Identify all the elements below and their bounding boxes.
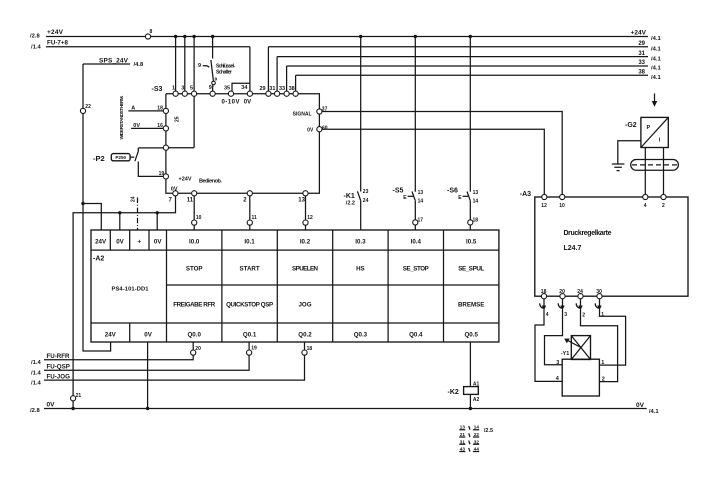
svg-text:0-10V: 0-10V xyxy=(222,100,240,106)
svg-text:P: P xyxy=(647,125,651,131)
wire riser 38 xyxy=(295,75,297,91)
svg-text:23: 23 xyxy=(363,189,369,195)
svg-text:24V: 24V xyxy=(105,332,117,339)
terminal 20 A3 bottom xyxy=(560,294,565,299)
svg-text:20: 20 xyxy=(559,289,565,295)
svg-text:SIGNAL: SIGNAL xyxy=(293,111,312,117)
terminal 4 A3 top xyxy=(643,194,648,199)
PLC table A2 PS4-101-DD1 xyxy=(91,230,499,342)
connector hook pin 4 xyxy=(540,299,549,318)
svg-text:9: 9 xyxy=(215,77,218,83)
svg-text:31: 31 xyxy=(638,51,645,57)
block A3 Druckregelkarte xyxy=(520,191,688,296)
wire Q0.0 to FU-RFR xyxy=(44,342,193,360)
svg-text:0V: 0V xyxy=(47,401,56,408)
svg-text:11: 11 xyxy=(187,198,194,204)
svg-text:9: 9 xyxy=(198,63,201,69)
svg-text:Bedienob.: Bedienob. xyxy=(199,178,222,184)
svg-text:STOP: STOP xyxy=(186,266,203,273)
svg-text:14: 14 xyxy=(474,425,480,430)
svg-text:SE_SPUL: SE_SPUL xyxy=(458,266,484,273)
svg-text:31: 31 xyxy=(460,439,466,444)
terminal 21 xyxy=(71,396,76,401)
svg-text:Q0.5: Q0.5 xyxy=(464,332,478,339)
svg-text:18: 18 xyxy=(541,289,547,295)
svg-text:3: 3 xyxy=(181,86,184,92)
connector hook pin 3 xyxy=(558,299,567,318)
svg-text:29: 29 xyxy=(638,41,645,47)
wire G2 to A3 pin4 xyxy=(644,148,646,195)
potentiometer P2 pressure switch xyxy=(93,148,163,177)
svg-text:18: 18 xyxy=(307,346,313,352)
svg-text:/4.8: /4.8 xyxy=(134,62,144,68)
svg-text:0V: 0V xyxy=(116,239,124,246)
svg-text:-G2: -G2 xyxy=(625,122,637,129)
wire input 0V xyxy=(131,127,163,129)
wire Q0.2 to FU-JOG xyxy=(44,342,305,380)
svg-text:+24V: +24V xyxy=(631,30,647,37)
svg-text:FU-JOG: FU-JOG xyxy=(47,373,71,380)
svg-text:8: 8 xyxy=(150,29,153,35)
svg-text:25: 25 xyxy=(174,116,180,122)
wire riser S3 pin5 xyxy=(193,37,195,92)
svg-text:9: 9 xyxy=(209,85,212,91)
svg-text:-S3: -S3 xyxy=(152,86,163,93)
svg-text:14: 14 xyxy=(418,199,424,205)
svg-text:/4.1: /4.1 xyxy=(651,36,661,42)
svg-text:24V: 24V xyxy=(95,239,107,246)
connector hook pin 1 xyxy=(595,299,604,318)
svg-text:Q0.3: Q0.3 xyxy=(354,332,368,339)
contact mirror K2 cross reference xyxy=(459,425,493,452)
svg-text:A1: A1 xyxy=(473,381,480,387)
wire SPS vertical feed xyxy=(83,64,111,351)
svg-text:31: 31 xyxy=(269,86,275,92)
wire input A xyxy=(128,110,163,112)
svg-text:2: 2 xyxy=(582,313,585,319)
svg-text:Q0.4: Q0.4 xyxy=(409,332,423,339)
table header texts xyxy=(95,239,477,246)
terminal 30 A3 bottom xyxy=(597,294,602,299)
svg-text:21: 21 xyxy=(460,432,466,437)
bottom edge terminals of analog block xyxy=(173,191,178,196)
svg-text:13: 13 xyxy=(473,190,479,196)
svg-text:-S5: -S5 xyxy=(393,187,404,194)
svg-text:30: 30 xyxy=(596,289,602,295)
svg-text:Druckregelkarte: Druckregelkarte xyxy=(564,230,612,237)
svg-text:13: 13 xyxy=(460,425,466,430)
wire 0V bottom cell to 0V bus xyxy=(147,342,149,409)
svg-text:FREIGABE RFR: FREIGABE RFR xyxy=(173,302,216,309)
block analog section outline xyxy=(166,94,320,194)
terminal 8 on +24V bus xyxy=(145,34,150,39)
wire hook4 to valve pin4 xyxy=(535,310,562,382)
wire SIGNAL run to A3 pin 10 xyxy=(322,112,562,195)
terminal 19 analog block left edge xyxy=(163,174,168,179)
terminal 12 A3 top xyxy=(542,194,547,199)
svg-text:Q0.1: Q0.1 xyxy=(243,332,257,339)
terminal 10 A3 top xyxy=(560,194,565,199)
svg-text:-A3: -A3 xyxy=(520,191,531,198)
svg-text:14: 14 xyxy=(473,199,479,205)
svg-text:/1.4: /1.4 xyxy=(31,360,41,366)
wire riser S3 pin3 xyxy=(184,37,186,92)
svg-text:L24.7: L24.7 xyxy=(564,245,582,252)
wire jumper bracket 35-34 xyxy=(232,83,250,91)
svg-text:17: 17 xyxy=(418,217,424,223)
svg-text:HS: HS xyxy=(356,266,365,273)
terminal 2 A3 top xyxy=(661,194,666,199)
wire net 29 to /4.1 xyxy=(268,46,648,48)
svg-text:PS4-101-DD1: PS4-101-DD1 xyxy=(112,287,150,293)
svg-text:35: 35 xyxy=(224,85,230,91)
svg-text:3: 3 xyxy=(564,312,567,318)
svg-text:/1.4: /1.4 xyxy=(31,380,41,386)
relay coil K2 xyxy=(448,342,480,410)
svg-text:22: 22 xyxy=(474,432,480,437)
terminal 22 xyxy=(80,108,85,113)
wire 0V run to A3 pin 12 xyxy=(322,129,544,194)
svg-text:/4.1: /4.1 xyxy=(651,47,661,53)
right edge terminals SIGNAL and 0V xyxy=(317,109,322,114)
cable marker stadium xyxy=(631,160,679,171)
wire branch to 24V top cell xyxy=(83,204,101,231)
svg-text:/4.1: /4.1 xyxy=(651,75,661,81)
node junction circle left edge xyxy=(163,145,168,150)
wire hook1 to valve pin1 xyxy=(599,310,625,366)
svg-text:32: 32 xyxy=(474,439,480,444)
svg-text:-K1: -K1 xyxy=(344,193,355,200)
svg-text:21: 21 xyxy=(76,393,82,399)
svg-text:I0.4: I0.4 xyxy=(411,239,422,246)
ground symbol xyxy=(618,141,641,164)
svg-text:SE_STOP: SE_STOP xyxy=(403,266,429,273)
svg-text:19: 19 xyxy=(251,346,257,352)
svg-text:I0.5: I0.5 xyxy=(466,239,477,246)
svg-text:1: 1 xyxy=(172,86,175,92)
svg-text:1: 1 xyxy=(601,360,604,366)
contact S5 pushbutton xyxy=(393,35,424,230)
svg-text:BREMSE: BREMSE xyxy=(458,302,484,309)
wire shield dash-dot to plus terminal xyxy=(137,198,139,231)
svg-text:A: A xyxy=(131,105,135,111)
svg-text:2: 2 xyxy=(662,203,665,209)
wire hook2 to valve pin2 xyxy=(581,310,618,382)
svg-text:/2.8: /2.8 xyxy=(30,34,40,40)
svg-text:+24V: +24V xyxy=(47,29,64,36)
svg-text:44: 44 xyxy=(474,447,480,452)
svg-text:/1.4: /1.4 xyxy=(31,371,41,377)
svg-text:-S6: -S6 xyxy=(447,187,458,194)
svg-text:I0.3: I0.3 xyxy=(355,239,366,246)
svg-text:I0.2: I0.2 xyxy=(300,239,311,246)
svg-text:START: START xyxy=(240,266,260,273)
wire net 33 to /4.1 xyxy=(287,65,648,67)
svg-text:-Y1: -Y1 xyxy=(561,351,570,357)
svg-text:Schalter: Schalter xyxy=(216,69,232,75)
svg-text:-A2: -A2 xyxy=(93,256,104,263)
valve Y1 proportional solenoid xyxy=(561,336,591,360)
svg-text:24: 24 xyxy=(577,289,583,295)
wire hook3 to valve pin3 xyxy=(545,310,563,365)
svg-text:WIDERSTANDSTHERM.: WIDERSTANDSTHERM. xyxy=(119,96,125,140)
wire 0V drops to table xyxy=(120,213,157,230)
svg-text:FU-RFR: FU-RFR xyxy=(47,353,71,360)
svg-text:0V: 0V xyxy=(144,332,152,339)
svg-text:/4.1: /4.1 xyxy=(651,66,661,72)
svg-text:22: 22 xyxy=(85,104,91,110)
svg-text:P250: P250 xyxy=(115,155,126,160)
svg-text:12: 12 xyxy=(307,215,313,221)
svg-text:13: 13 xyxy=(298,197,305,203)
svg-text:43: 43 xyxy=(460,447,466,452)
svg-text:10: 10 xyxy=(196,215,202,221)
wire I0.1 from terminal 2 xyxy=(249,196,251,230)
arrow pressure input xyxy=(654,94,656,103)
connector hook pin 2 xyxy=(576,299,585,319)
svg-text:Q0.2: Q0.2 xyxy=(298,332,312,339)
svg-text:QUICKSTOP QSP: QUICKSTOP QSP xyxy=(226,302,273,309)
svg-text:-K2: -K2 xyxy=(448,389,459,396)
terminal 18 analog block left edge xyxy=(163,108,168,113)
table bottom row texts xyxy=(105,332,479,339)
svg-text:29: 29 xyxy=(260,86,266,92)
svg-text:0V: 0V xyxy=(636,402,645,409)
terminal 24 A3 bottom xyxy=(578,294,583,299)
transducer G2 pressure sensor xyxy=(625,117,668,147)
svg-text:/2.2: /2.2 xyxy=(346,201,355,207)
wire 0V distribution from terminal 7 xyxy=(73,196,175,409)
wire G2 to A3 pin2 xyxy=(663,148,665,195)
table row3 texts xyxy=(173,302,484,309)
wire 0V bus bottom xyxy=(44,408,647,410)
svg-text:SPUELEN: SPUELEN xyxy=(292,266,319,273)
wire I0.2 from terminal 13 xyxy=(305,196,307,230)
svg-text:0V: 0V xyxy=(307,128,314,134)
svg-text:FU-QSP: FU-QSP xyxy=(47,364,70,371)
svg-text:-P2: -P2 xyxy=(93,154,105,163)
terminal row top of analog block xyxy=(173,91,178,96)
svg-text:33: 33 xyxy=(638,60,645,66)
svg-text:+24V: +24V xyxy=(179,176,192,182)
svg-text:24: 24 xyxy=(131,196,137,202)
wire net 31 to /4.1 xyxy=(277,56,648,58)
svg-text:11: 11 xyxy=(252,215,258,221)
wire riser S3 pin1 xyxy=(175,37,177,92)
wire riser 29 xyxy=(267,47,269,91)
svg-text:+: + xyxy=(137,239,141,246)
wire FU-7+8 xyxy=(46,46,250,48)
svg-text:18: 18 xyxy=(473,217,479,223)
svg-text:/2.8: /2.8 xyxy=(30,408,40,414)
svg-text:24: 24 xyxy=(363,198,369,204)
wire terminal5 branch to junction xyxy=(169,96,195,147)
svg-text:20: 20 xyxy=(195,346,201,352)
svg-text:FU-7+8: FU-7+8 xyxy=(47,40,69,47)
svg-text:3: 3 xyxy=(556,360,559,366)
wire I0.0 from terminal 11 xyxy=(193,196,195,230)
svg-text:/2.5: /2.5 xyxy=(484,428,493,434)
svg-text:A2: A2 xyxy=(473,397,480,403)
svg-text:Q0.0: Q0.0 xyxy=(187,332,201,339)
terminal 16 analog block left edge xyxy=(163,126,168,131)
wire riser 33 xyxy=(286,66,288,91)
svg-text:1: 1 xyxy=(601,312,604,318)
wire riser 31 xyxy=(276,57,278,92)
svg-text:0V: 0V xyxy=(244,100,251,106)
svg-text:10: 10 xyxy=(559,203,565,209)
svg-text:5: 5 xyxy=(190,86,193,92)
svg-text:/4.1: /4.1 xyxy=(651,56,661,62)
svg-text:I0.1: I0.1 xyxy=(244,239,255,246)
svg-text:38: 38 xyxy=(638,70,645,76)
svg-text:/4.1: /4.1 xyxy=(649,409,659,415)
svg-text:2: 2 xyxy=(602,376,605,382)
wire FU-7+8 drop to terminal 34 xyxy=(249,47,251,91)
contact S6 pushbutton xyxy=(447,35,478,230)
svg-text:0V: 0V xyxy=(133,123,140,129)
svg-text:/1.4: /1.4 xyxy=(31,45,41,51)
svg-text:33: 33 xyxy=(279,86,285,92)
valve body block xyxy=(556,359,605,396)
svg-text:12: 12 xyxy=(541,203,547,209)
svg-text:38: 38 xyxy=(289,86,295,92)
switch S3 key switch Schluessel-Schalter xyxy=(198,35,235,91)
svg-text:0V: 0V xyxy=(154,239,162,246)
terminal 18 A3 bottom xyxy=(541,294,546,299)
svg-text:JOG: JOG xyxy=(298,302,311,309)
wire net 38 to /4.1 xyxy=(296,74,648,76)
svg-text:0V: 0V xyxy=(171,186,178,192)
svg-text:4: 4 xyxy=(644,203,647,209)
svg-text:4: 4 xyxy=(546,312,549,318)
wire Q0.1 to FU-QSP xyxy=(44,342,249,370)
svg-text:34: 34 xyxy=(241,85,248,91)
contact K1 xyxy=(344,35,369,230)
table row2 texts xyxy=(186,266,485,273)
wire +24V bus xyxy=(46,36,648,38)
svg-text:I0.0: I0.0 xyxy=(189,239,200,246)
svg-text:13: 13 xyxy=(418,190,424,196)
